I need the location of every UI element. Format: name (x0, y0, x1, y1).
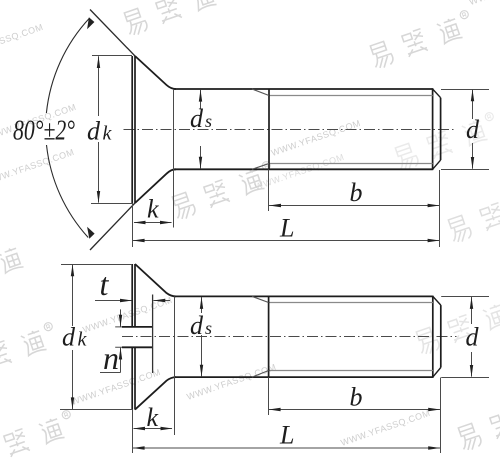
svg-text:L: L (279, 214, 294, 243)
svg-text:t: t (100, 266, 110, 302)
svg-text:k: k (147, 403, 159, 432)
svg-text:L: L (279, 421, 294, 450)
svg-text:d: d (466, 323, 480, 352)
svg-text:d: d (466, 115, 480, 144)
svg-text:k: k (147, 195, 159, 224)
svg-text:n: n (103, 340, 119, 376)
svg-text:80°±2°: 80°±2° (13, 115, 75, 146)
svg-text:b: b (350, 383, 363, 412)
svg-text:b: b (350, 178, 363, 207)
